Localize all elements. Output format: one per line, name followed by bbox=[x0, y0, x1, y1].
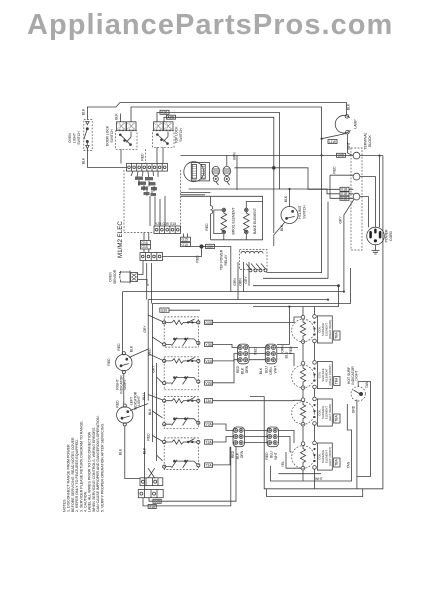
label box element 4 bbox=[317, 443, 332, 470]
wire T1 to power feed bbox=[360, 155, 383, 157]
svg-text:LIGHT: LIGHT bbox=[137, 396, 141, 406]
svg-text:BLK: BLK bbox=[148, 408, 152, 415]
hot surface indicator light bbox=[351, 387, 365, 401]
wire row5 to element3 bbox=[213, 399, 301, 401]
svg-text:RED: RED bbox=[107, 358, 111, 366]
fuse box 2 bbox=[138, 490, 163, 498]
wire ind diagonals bbox=[129, 349, 148, 411]
surface switch unit 2 box bbox=[164, 357, 198, 390]
svg-text:LIGHT: LIGHT bbox=[73, 133, 77, 143]
oven sensor bbox=[119, 261, 149, 286]
label V1B row3 bbox=[205, 359, 213, 364]
blockA labels bbox=[236, 365, 249, 374]
svg-text:(RIGHT FRONT): (RIGHT FRONT) bbox=[328, 364, 332, 385]
svg-text:YEL: YEL bbox=[281, 461, 285, 468]
wire top lock down bbox=[162, 147, 164, 163]
label BRN bbox=[233, 152, 237, 160]
label 13A row5 bbox=[205, 399, 213, 404]
wire T3 GRY drop bbox=[339, 199, 355, 291]
label T3A row8 bbox=[205, 463, 213, 468]
svg-text:GRY: GRY bbox=[143, 325, 147, 333]
terminal T1 bbox=[353, 152, 360, 159]
svg-text:WHT: WHT bbox=[274, 452, 278, 460]
connector P2 strip bbox=[154, 222, 181, 234]
svg-text:SWITCH: SWITCH bbox=[179, 128, 183, 142]
connector block 4 bbox=[267, 427, 279, 447]
wire matrix left bus 2 bbox=[151, 303, 153, 442]
svg-text:G39: G39 bbox=[161, 309, 168, 313]
svg-text:13A: 13A bbox=[205, 399, 212, 403]
terminal block dashed box bbox=[351, 148, 362, 250]
svg-text:RED: RED bbox=[254, 347, 258, 355]
wire bus h303 bbox=[152, 268, 350, 303]
connector block B bbox=[265, 344, 277, 364]
label box element 2 bbox=[317, 362, 332, 389]
label OVEN SENSOR bbox=[109, 269, 118, 284]
label RED left ind bbox=[116, 400, 120, 408]
svg-text:LIGHT: LIGHT bbox=[355, 371, 359, 381]
wire lamp to T1 bbox=[347, 134, 353, 156]
surface switch unit 4 box bbox=[164, 438, 198, 470]
label BLK hi-limit top bbox=[284, 195, 288, 202]
connector block A bbox=[238, 344, 250, 364]
wire v264 left loop bbox=[250, 397, 357, 489]
svg-text:RED: RED bbox=[117, 343, 121, 351]
svg-text:TERMINAL: TERMINAL bbox=[364, 132, 368, 149]
svg-text:WHT: WHT bbox=[274, 366, 278, 374]
block4 labels bbox=[265, 451, 278, 460]
svg-text:BLU: BLU bbox=[270, 451, 274, 458]
svg-text:BLU: BLU bbox=[265, 366, 269, 373]
label LEFT INDICATOR LIGHT bbox=[130, 391, 142, 410]
switch S3 top lock bbox=[153, 131, 175, 148]
wire bus L1 top bbox=[87, 103, 346, 120]
svg-text:TAN: TAN bbox=[365, 381, 369, 388]
svg-text:ORN: ORN bbox=[238, 278, 242, 286]
svg-text:BLK: BLK bbox=[119, 448, 123, 455]
wire row8 up to block3 bbox=[213, 447, 230, 465]
svg-text:TAN: TAN bbox=[347, 461, 351, 468]
switch row 6 bbox=[163, 417, 200, 426]
svg-text:BLK: BLK bbox=[280, 224, 284, 231]
label GRD bbox=[352, 405, 356, 413]
svg-text:L1W: L1W bbox=[329, 140, 337, 144]
board cluster wires bbox=[131, 171, 158, 196]
logo AppliancePartsPros.com bbox=[27, 9, 393, 42]
svg-text:TOP LOCK: TOP LOCK bbox=[175, 126, 179, 144]
wire junction to bus bbox=[186, 247, 231, 292]
label TBA element4 bbox=[334, 458, 340, 467]
wire matrix left bus 3 bbox=[156, 363, 158, 461]
svg-text:WHT: WHT bbox=[315, 477, 323, 481]
svg-text:GRN: GRN bbox=[269, 367, 273, 375]
svg-text:CORD: CORD bbox=[389, 230, 393, 241]
label RED right ind bbox=[107, 358, 111, 366]
switch S2 door lock bbox=[116, 131, 138, 150]
label V2B row4 bbox=[205, 381, 213, 386]
svg-text:OVEN: OVEN bbox=[68, 133, 72, 143]
wire h167 bbox=[235, 166, 341, 189]
label TDF POWER RELAY bbox=[220, 249, 229, 270]
label TERMINAL BLOCK bbox=[364, 132, 373, 149]
label L1W bbox=[328, 140, 337, 144]
svg-text:BLK: BLK bbox=[130, 345, 134, 352]
indicator light right bbox=[116, 352, 132, 374]
label BLK oven light top bbox=[82, 108, 86, 115]
wires blockA-blockB bbox=[249, 348, 265, 360]
svg-text:X1B: X1B bbox=[341, 197, 348, 201]
svg-text:A2B: A2B bbox=[168, 116, 175, 120]
svg-text:GRY: GRY bbox=[244, 276, 248, 284]
label T3A row7 bbox=[205, 440, 213, 445]
label G39 junction bbox=[206, 244, 215, 249]
wire L1 feed down right bbox=[357, 156, 383, 489]
svg-text:RED: RED bbox=[205, 223, 209, 231]
motor M1 door latch bbox=[184, 162, 210, 182]
wire red riser to bus bbox=[277, 306, 293, 354]
wire h285 nest bbox=[253, 284, 340, 306]
wires cluster to P2 bbox=[150, 196, 165, 226]
svg-text:TBA: TBA bbox=[334, 331, 338, 338]
switch S1 oven light bbox=[84, 120, 92, 151]
label BLK right ind bbox=[130, 345, 134, 352]
label box element 1 bbox=[317, 316, 332, 343]
svg-text:Y3A: Y3A bbox=[205, 423, 212, 427]
wire row2 to blockA bbox=[213, 344, 238, 347]
fan motor symbols bbox=[212, 166, 231, 185]
svg-text:G39: G39 bbox=[154, 500, 161, 504]
label WHT bottom bbox=[315, 477, 323, 481]
svg-text:X1B: X1B bbox=[341, 192, 348, 196]
svg-text:SWITCH: SWITCH bbox=[77, 131, 81, 145]
coil left of broil bbox=[205, 196, 213, 240]
connector door lock plug bbox=[117, 122, 137, 130]
labels G15 left stack bbox=[140, 233, 150, 253]
svg-text:A1B: A1B bbox=[161, 111, 168, 115]
wire strip to junction bbox=[163, 247, 202, 257]
surface element 2 bbox=[292, 361, 317, 390]
svg-text:G15: G15 bbox=[182, 243, 189, 247]
connector P1 strip bbox=[127, 164, 168, 172]
wire bus L3 top-lock bbox=[157, 112, 279, 189]
wire fan feeds bbox=[227, 155, 237, 190]
long wire bottom 1 bbox=[149, 447, 236, 502]
wire matrix left bus 4 bbox=[144, 392, 146, 490]
label G08 terminal1 bbox=[337, 153, 346, 157]
svg-text:TBA: TBA bbox=[334, 377, 338, 384]
svg-text:RED: RED bbox=[236, 365, 240, 373]
relay drop wires bbox=[233, 262, 249, 300]
svg-text:WHT: WHT bbox=[347, 142, 351, 150]
svg-text:V2B: V2B bbox=[205, 381, 212, 385]
svg-text:(LEFT REAR): (LEFT REAR) bbox=[328, 404, 332, 421]
element1 top feeds bbox=[303, 307, 315, 316]
wire v273 bbox=[273, 168, 275, 233]
board dashed box bbox=[124, 170, 181, 233]
wire row3 to blockA bbox=[213, 354, 238, 361]
svg-text:OVEN: OVEN bbox=[109, 272, 113, 282]
bake element bbox=[244, 202, 263, 240]
wire under element4 bbox=[279, 473, 322, 475]
svg-text:SWITCH: SWITCH bbox=[110, 129, 114, 143]
wire matrix left bus 1 bbox=[147, 300, 149, 401]
wire T2 to cord bbox=[360, 177, 376, 228]
matrix left labels bbox=[142, 325, 155, 455]
wire door lock down 2 bbox=[120, 149, 122, 163]
label HOT SURFACE INDICATOR LIGHT bbox=[347, 366, 359, 385]
svg-text:ORN: ORN bbox=[245, 365, 249, 373]
labels G15 stack bbox=[181, 234, 191, 247]
label RED between blocks bbox=[254, 347, 258, 355]
label G39 bottom bbox=[153, 499, 161, 503]
wire into terminal 1 bbox=[181, 154, 354, 156]
label DOOR LOCK SWITCH bbox=[106, 125, 115, 146]
svg-text:T3A: T3A bbox=[205, 464, 212, 468]
label X18 bottom bbox=[148, 505, 156, 509]
broil element bbox=[214, 208, 227, 240]
label BLK left ind bottom bbox=[119, 448, 123, 455]
wire row6 to block3 bbox=[213, 424, 233, 430]
block3 labels bbox=[231, 450, 244, 459]
label G08 row1 bbox=[205, 320, 213, 325]
wire lamp to L1W junction bbox=[321, 134, 347, 140]
wire h185 nest bbox=[181, 189, 341, 195]
label YEL bbox=[281, 452, 301, 468]
wire bus L4 top-lock bbox=[164, 117, 274, 168]
label G39 matrix bbox=[160, 308, 200, 313]
connector block 3 bbox=[233, 427, 245, 447]
svg-text:BLOCK: BLOCK bbox=[368, 135, 372, 147]
label BLK oven light bottom bbox=[82, 157, 86, 164]
svg-text:G15: G15 bbox=[141, 245, 148, 249]
wire bus h299 bbox=[148, 299, 329, 301]
label A1B top lock bbox=[160, 110, 169, 114]
label Y3A row6 bbox=[205, 422, 213, 427]
svg-text:BLK: BLK bbox=[347, 103, 351, 110]
wire strip riser 2 bbox=[151, 263, 153, 303]
wire top lock down 2 bbox=[156, 147, 158, 163]
connector strip P3 bbox=[140, 253, 163, 261]
wire row7 to block3 bbox=[213, 437, 233, 443]
label BLK door lock bbox=[115, 113, 121, 122]
svg-text:(LEFT FRONT): (LEFT FRONT) bbox=[328, 447, 332, 466]
label TBA element1 bbox=[334, 331, 340, 340]
wires block3-block4 bbox=[245, 430, 268, 442]
switch row 1 coil bbox=[163, 319, 200, 325]
wire T3 to cord bbox=[360, 197, 369, 228]
surface switch unit 1 box bbox=[164, 317, 198, 347]
blockB labels bbox=[259, 366, 278, 375]
labels ORN BLU bbox=[281, 345, 289, 359]
svg-text:X1B: X1B bbox=[341, 188, 348, 192]
label LAMP bbox=[354, 119, 358, 129]
svg-text:POWER: POWER bbox=[385, 229, 389, 242]
label POWER CORD bbox=[385, 229, 394, 242]
notes block bbox=[63, 415, 105, 512]
wire cord mid feed bbox=[379, 156, 381, 227]
element4 bottom drops bbox=[303, 469, 315, 489]
long wire bottom 2 bbox=[143, 447, 231, 506]
label box element 3 bbox=[317, 399, 332, 426]
svg-text:BLK: BLK bbox=[82, 157, 86, 164]
surface element 3 bbox=[292, 397, 317, 426]
label TAN right bbox=[357, 381, 371, 476]
svg-text:LAMP: LAMP bbox=[354, 119, 358, 129]
svg-text:BLK: BLK bbox=[259, 367, 263, 374]
svg-text:RED: RED bbox=[196, 255, 200, 263]
element chain 3-4 bbox=[303, 425, 315, 442]
svg-text:G15: G15 bbox=[182, 238, 189, 242]
hi-limit switch bbox=[274, 188, 298, 246]
connector top lock plug bbox=[154, 122, 174, 130]
svg-text:BLK: BLK bbox=[284, 195, 288, 202]
svg-text:DOOR LOCK: DOOR LOCK bbox=[106, 125, 110, 146]
wire block4 to element4 bbox=[279, 430, 295, 452]
ground symbol bbox=[372, 245, 380, 254]
svg-text:SWITCH: SWITCH bbox=[303, 205, 307, 219]
element chain 2-3 bbox=[303, 389, 315, 398]
label TOP LOCK SWITCH bbox=[175, 126, 184, 144]
indicator light left bbox=[117, 404, 133, 426]
label BAKE ELEMENT bbox=[253, 208, 257, 234]
svg-text:G08: G08 bbox=[205, 321, 212, 325]
svg-text:ORN: ORN bbox=[240, 450, 244, 458]
svg-text:SENSOR: SENSOR bbox=[113, 269, 117, 284]
surface element 4 bbox=[292, 441, 317, 470]
label RIGHT INDICATOR LIGHT bbox=[116, 375, 128, 394]
switch row 8 bbox=[163, 460, 200, 469]
wires blockB to elements bbox=[277, 348, 298, 367]
label RED junction bbox=[196, 255, 200, 263]
terminal T2 bbox=[353, 173, 360, 180]
labels X1B wires bbox=[330, 175, 354, 201]
svg-text:HI-LIMIT: HI-LIMIT bbox=[298, 205, 302, 218]
wire oven light to P1 bbox=[87, 148, 126, 167]
svg-text:GRY: GRY bbox=[339, 216, 343, 224]
svg-text:RED: RED bbox=[231, 450, 235, 458]
svg-text:RED: RED bbox=[116, 400, 120, 408]
label OVEN LIGHT SWITCH bbox=[68, 131, 81, 145]
switch row 4 bbox=[163, 376, 200, 385]
svg-text:RED: RED bbox=[333, 166, 337, 174]
wire tan 2 bbox=[270, 404, 351, 481]
element chain 1-2 bbox=[303, 343, 315, 362]
svg-text:TDF POWER: TDF POWER bbox=[220, 249, 224, 270]
svg-text:ORN: ORN bbox=[281, 345, 285, 353]
wire row1 to element1 bbox=[213, 317, 301, 322]
switch row 7 coil bbox=[163, 439, 200, 445]
svg-text:GRN: GRN bbox=[233, 278, 237, 286]
wire ind chain bbox=[124, 374, 140, 479]
wire bus left drop bbox=[117, 292, 123, 355]
label BLK hi-limit bottom bbox=[280, 224, 284, 231]
label BROIL ELEMENT bbox=[232, 207, 236, 234]
wire bus h291 bbox=[123, 291, 346, 293]
wire door lock down bbox=[141, 149, 146, 163]
svg-text:M1/M2 ELEC: M1/M2 ELEC bbox=[117, 221, 124, 258]
label HI-LIMIT SWITCH bbox=[298, 205, 307, 219]
label BLK lamp bbox=[347, 103, 351, 110]
svg-text:TBA: TBA bbox=[334, 414, 338, 421]
terminal T3 bbox=[353, 193, 360, 200]
svg-text:BLU: BLU bbox=[142, 393, 146, 400]
surface element 1 bbox=[292, 315, 317, 344]
svg-text:BAKE ELEMENT: BAKE ELEMENT bbox=[253, 208, 257, 234]
wire row4 to blockA bbox=[213, 360, 238, 383]
fuse box 1 bbox=[140, 478, 163, 486]
wire element loop bbox=[181, 196, 263, 240]
svg-text:BLK: BLK bbox=[241, 367, 245, 374]
surface switch unit 3 box bbox=[164, 397, 198, 429]
svg-text:BLU: BLU bbox=[285, 351, 289, 358]
svg-text:RED: RED bbox=[147, 433, 151, 441]
svg-text:5. VERIFY PROPER OPERATION AF: 5. VERIFY PROPER OPERATION AFTER SERVICI… bbox=[100, 423, 104, 512]
power cord P1 bbox=[367, 227, 385, 245]
wire nest v328 bbox=[263, 202, 328, 279]
wire bus L2 top bbox=[131, 107, 322, 273]
wire bottom outer bbox=[267, 489, 363, 497]
svg-text:GRY: GRY bbox=[152, 365, 156, 373]
svg-text:GRD: GRD bbox=[352, 405, 356, 413]
junction node G bbox=[199, 244, 203, 248]
svg-text:BLK: BLK bbox=[143, 447, 147, 454]
switch row 3 coil bbox=[163, 358, 200, 364]
svg-text:BLK: BLK bbox=[115, 113, 119, 120]
svg-text:RELAY: RELAY bbox=[224, 254, 228, 266]
wire red into T2 bbox=[330, 166, 353, 175]
switch row 5 coil bbox=[163, 397, 200, 403]
svg-text:T3A: T3A bbox=[205, 440, 212, 444]
svg-text:Y2B G39 G15: Y2B G39 G15 bbox=[155, 222, 176, 226]
svg-text:BLK: BLK bbox=[82, 108, 86, 115]
wire strip riser 1 bbox=[146, 263, 148, 300]
label A2B top lock bbox=[167, 115, 176, 119]
svg-text:BROIL ELEMENT: BROIL ELEMENT bbox=[232, 207, 236, 234]
svg-text:BRN: BRN bbox=[233, 152, 237, 160]
switch row 2 bbox=[163, 338, 200, 347]
lamp DS1 oven lamp bbox=[335, 115, 350, 135]
label Y3B row2 bbox=[205, 342, 213, 347]
label TBA element3 bbox=[334, 414, 340, 423]
svg-text:RED: RED bbox=[265, 452, 269, 460]
svg-text:V1B: V1B bbox=[205, 359, 212, 363]
label M1/M2 ELEC bbox=[117, 221, 124, 258]
svg-text:G08: G08 bbox=[338, 154, 345, 158]
svg-text:RED: RED bbox=[141, 153, 145, 161]
relay K1 TDF power bbox=[240, 250, 268, 272]
svg-text:Y3B: Y3B bbox=[205, 343, 212, 347]
svg-text:(RIGHT REAR): (RIGHT REAR) bbox=[328, 320, 332, 339]
svg-text:G15: G15 bbox=[141, 241, 148, 245]
svg-text:G39: G39 bbox=[207, 245, 214, 249]
svg-text:TBA: TBA bbox=[334, 458, 338, 465]
matrix diagonal feeds bbox=[148, 315, 163, 478]
svg-text:RED: RED bbox=[289, 346, 293, 354]
label TBA element2 bbox=[334, 377, 340, 386]
label WHT bbox=[347, 142, 351, 150]
